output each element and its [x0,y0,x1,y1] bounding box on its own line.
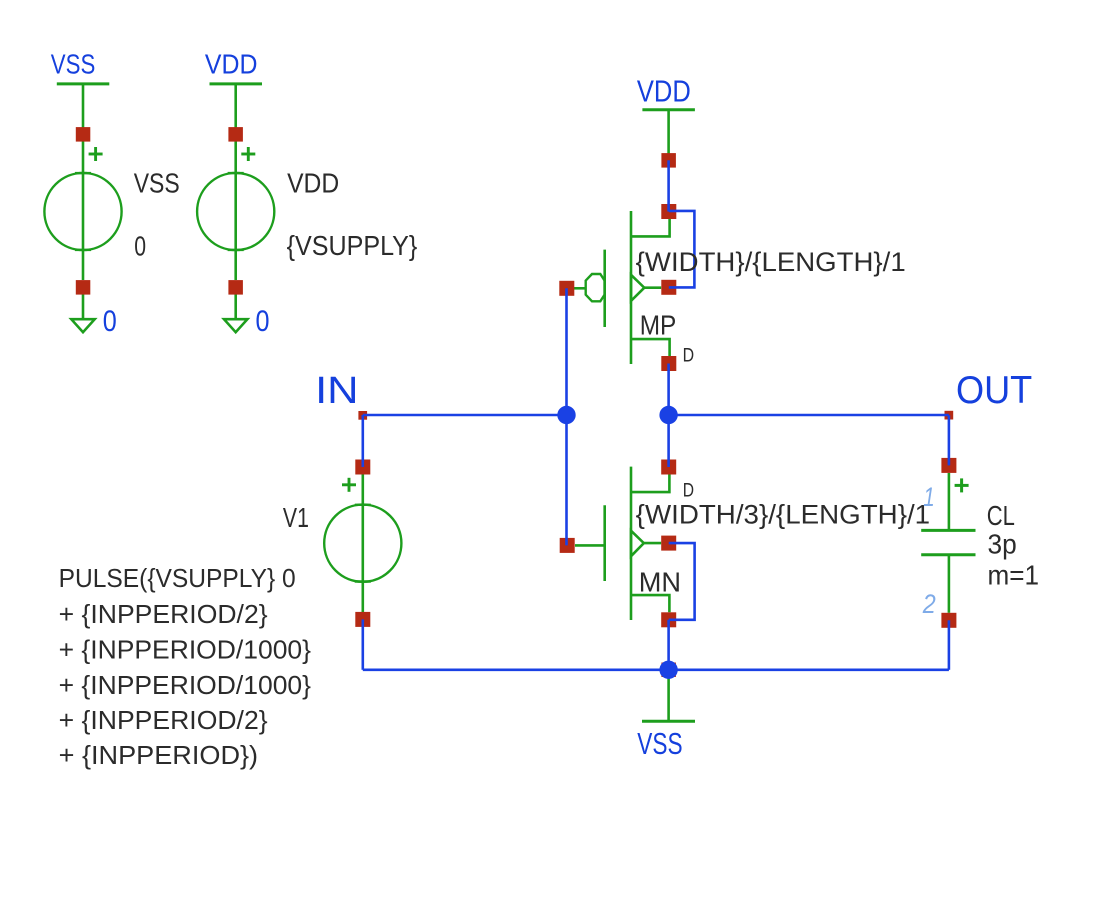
transistor MP drain lead [631,339,670,356]
transistor MP source lead [631,219,670,237]
voltage source V1 plus sign [342,478,356,492]
junction node IN/gate [557,406,575,424]
voltage source VDD pin + (square) [228,127,243,142]
transistor MN drain pin [661,460,676,475]
transistor MN bulk pin [661,536,676,551]
transistor MN bulk lead [644,542,661,545]
value label V1 PULSE line 5 [59,705,268,735]
svg-text:1: 1 [923,482,935,512]
wire VDD to ground [234,295,237,319]
wire VSS supply stem (bottom) [667,670,670,722]
value label MP {WIDTH}/{LENGTH}/1 [636,247,906,277]
wire VDD supply stem [667,110,670,154]
svg-text:{WIDTH}/{LENGTH}/1: {WIDTH}/{LENGTH}/1 [636,247,906,277]
pin number 1 of CL [923,482,935,512]
transistor MN source pin [661,612,676,627]
svg-text:2: 2 [922,589,936,619]
wire bottom net V1 to CL [363,668,949,671]
value label V1 PULSE line 6 [59,740,259,770]
pin square IN [358,411,367,420]
transistor MP drain pin [661,356,676,371]
transistor MN channel line [630,467,633,620]
ground symbol 0 (right) [224,319,247,332]
transistor MN drain lead [631,475,669,493]
voltage source VDD internal wire [234,142,237,281]
refdes label V1 [283,502,309,533]
value label CL 3p [988,528,1017,559]
transistor MP gate lead [574,287,586,290]
refdes label MP [640,309,677,340]
wire MP drain to OUT node [667,364,670,416]
voltage source VDD value label {VSUPPLY} [287,230,418,261]
svg-text:V1: V1 [283,502,309,533]
voltage source VSS name label [134,167,180,198]
capacitor CL top plate [921,529,975,532]
svg-text:VDD: VDD [287,167,339,198]
refdes label MN [639,567,681,598]
voltage source VDD circle [197,173,274,250]
svg-text:+ {INPPERIOD/2}: + {INPPERIOD/2} [59,599,268,629]
wire MN source down [667,620,670,670]
supply label VSS (bottom of inverter) [637,721,695,761]
net label VSS (lab_pin) [51,49,110,84]
svg-text:{VSUPPLY}: {VSUPPLY} [287,230,418,261]
wire IN down to V1 [361,415,364,467]
transistor MN gate line [603,505,606,581]
capacitor CL bottom lead [948,556,951,613]
svg-text:CL: CL [987,500,1015,531]
svg-text:0: 0 [256,305,270,338]
wire MN bulk tie to source [669,543,695,620]
net label OUT [956,369,1032,412]
wire MP bulk tie to source [669,211,695,288]
wire OUT node to MN drain [667,415,670,467]
transistor MP gate pin [559,281,574,296]
value label V1 PULSE line 2 [59,599,268,629]
svg-text:VSS: VSS [134,167,180,198]
voltage source VSS internal wire [82,142,85,281]
svg-text:VDD: VDD [205,49,258,80]
transistor MP bulk pin [661,280,676,295]
voltage source VDD pin - (square) [228,280,243,295]
voltage source VSS pin + (square) [76,127,91,142]
voltage source VDD plus sign [241,147,255,161]
capacitor CL plus sign [955,478,969,492]
svg-text:VDD: VDD [637,73,691,108]
ground net label 0 (left) [103,305,117,338]
wire gate column [565,288,568,545]
svg-text:+ {INPPERIOD/1000}: + {INPPERIOD/1000} [59,670,312,700]
pin number 2 of CL [922,589,936,619]
transistor MN source lead [631,595,669,612]
value label V1 PULSE line 3 [59,635,312,665]
svg-text:PULSE({VSUPPLY} 0: PULSE({VSUPPLY} 0 [59,563,296,593]
transistor MN bulk arrow [631,531,644,557]
capacitor CL pin 2 (square) [941,613,956,628]
wire VSS to ground [82,295,85,319]
svg-text:+ {INPPERIOD/2}: + {INPPERIOD/2} [59,705,268,735]
svg-text:+ {INPPERIOD}): + {INPPERIOD}) [59,740,259,770]
svg-text:D: D [683,345,695,367]
voltage source VSS value label 0 [134,230,146,261]
svg-text:D: D [683,479,694,501]
svg-text:m=1: m=1 [988,560,1040,591]
wire OUT horizontal net [669,414,949,417]
svg-text:3p: 3p [988,528,1017,559]
svg-text:0: 0 [134,230,146,261]
svg-text:VSS: VSS [51,49,96,80]
refdes label CL [987,500,1015,531]
pin square VDD supply [661,153,676,168]
transistor MP gate line [603,250,606,327]
voltage source V1 circle [324,505,401,582]
capacitor CL pin 1 (square) [941,458,956,473]
capacitor CL top lead [948,473,951,529]
wire VDD label stem [234,84,237,128]
svg-text:0: 0 [103,305,117,338]
transistor MP gate bubble [586,274,605,301]
wire IN horizontal net [363,414,567,417]
pin label D of MN [683,479,694,501]
net label VDD (lab_pin) [205,49,262,84]
wire OUT down to CL [948,415,951,465]
wire VSS label stem [82,84,85,128]
transistor MP channel line [630,211,633,364]
pin square VSS bottom [661,663,676,678]
svg-text:+ {INPPERIOD/1000}: + {INPPERIOD/1000} [59,635,312,665]
voltage source V1 pin + (square) [355,460,370,475]
supply label VDD (top of inverter) [637,73,695,109]
svg-text:MN: MN [639,567,681,598]
voltage source V1 pin - (square) [355,612,370,627]
transistor MP source pin [661,204,676,219]
voltage source VSS pin - (square) [76,280,91,295]
pin square OUT [945,411,954,420]
voltage source VSS circle [44,173,121,250]
voltage source V1 internal wire [361,475,364,613]
voltage source VDD name label [287,167,339,198]
attribute label CL m=1 [988,560,1040,591]
capacitor CL bottom plate [921,553,975,556]
value label V1 PULSE line 1 [59,563,296,593]
voltage source VSS plus sign [89,147,103,161]
transistor MN gate pin [560,538,575,553]
transistor MP bulk arrow [631,275,644,301]
svg-text:IN: IN [315,370,359,412]
value label V1 PULSE line 4 [59,670,312,700]
value label MN {WIDTH/3}/{LENGTH}/1 [636,499,930,529]
junction node drain/OUT [659,406,677,424]
net label IN [315,370,359,412]
ground symbol 0 (left) [71,319,94,332]
svg-text:{WIDTH/3}/{LENGTH}/1: {WIDTH/3}/{LENGTH}/1 [636,499,930,529]
svg-text:VSS: VSS [637,726,682,761]
ground net label 0 (right) [256,305,270,338]
wire VDD to MP source [667,160,670,211]
transistor MP bulk lead [644,286,661,289]
pin label D of MP [683,345,695,367]
svg-text:OUT: OUT [956,369,1032,412]
transistor MN gate lead [575,544,605,547]
wire CL bottom to net [948,620,951,670]
junction node VSS bottom [659,661,677,679]
wire V1 minus down to bottom net [361,619,364,669]
svg-text:MP: MP [640,309,677,340]
